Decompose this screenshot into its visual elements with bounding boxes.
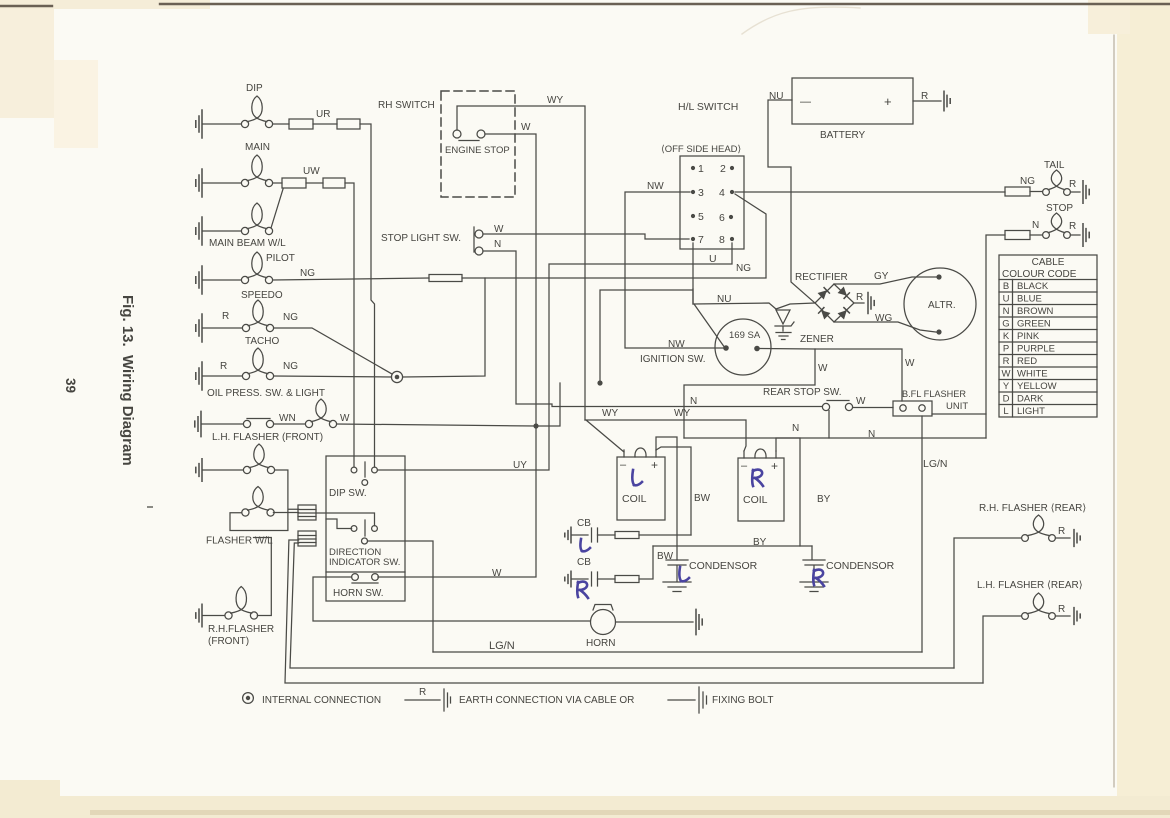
svg-text:–: – [620, 459, 627, 471]
lamp flasher W/L lower [242, 487, 274, 517]
svg-text:D: D [1003, 394, 1010, 405]
svg-text:PILOT: PILOT [266, 253, 295, 264]
svg-text:RED: RED [1017, 356, 1037, 367]
label OIL PRESS. SW. & LIGHT [207, 388, 325, 399]
svg-text:3: 3 [698, 187, 704, 199]
svg-text:GREEN: GREEN [1017, 319, 1051, 330]
svg-text:Y: Y [1003, 381, 1010, 392]
handwritten L condenser [679, 567, 689, 581]
svg-text:WY: WY [602, 408, 618, 419]
wire horn feed [313, 577, 590, 621]
svg-text:⟨OFF SIDE HEAD⟩: ⟨OFF SIDE HEAD⟩ [661, 144, 742, 155]
wire W horn switch feed [378, 426, 536, 579]
svg-text:PINK: PINK [1017, 331, 1040, 342]
fuse NG long [429, 275, 462, 282]
wire main beam to UW fuse [271, 189, 283, 228]
svg-text:WHITE: WHITE [1017, 369, 1048, 380]
svg-text:L.H. FLASHER (FRONT): L.H. FLASHER (FRONT) [212, 432, 323, 443]
condenser R [800, 546, 895, 592]
wire R.H. rear feed [954, 538, 1021, 668]
svg-text:TAIL: TAIL [1044, 160, 1065, 171]
coil R [738, 449, 784, 521]
battery [792, 78, 913, 141]
svg-text:39: 39 [63, 378, 78, 393]
lamp STOP [1005, 203, 1089, 246]
svg-text:4: 4 [719, 187, 725, 199]
junction W dot [533, 423, 538, 428]
pin 3 [691, 187, 704, 199]
svg-text:GY: GY [874, 271, 889, 282]
label BFL FLASHER UNIT [902, 389, 968, 412]
wire W to flasher lamp [337, 383, 560, 426]
legend earth via cable [405, 687, 634, 711]
svg-text:WG: WG [875, 313, 892, 324]
svg-text:169 SA: 169 SA [729, 330, 761, 341]
wire pin4 NG branch [735, 194, 766, 277]
svg-text:N: N [690, 396, 697, 407]
wire WY to coils [585, 408, 746, 452]
wire LG/N from dir sw [368, 541, 434, 652]
wire WY from engine stop [457, 95, 585, 420]
svg-text:(FRONT): (FRONT) [208, 636, 249, 647]
svg-text:R: R [1003, 356, 1010, 367]
svg-text:NU: NU [769, 91, 783, 102]
lamp TAIL [1005, 160, 1089, 203]
svg-text:INTERNAL CONNECTION: INTERNAL CONNECTION [262, 695, 381, 706]
lamp R.H. flasher front [196, 587, 258, 627]
svg-text:U: U [709, 253, 717, 265]
svg-text:BY: BY [753, 537, 767, 548]
switch DIRECTION INDICATOR SW [351, 520, 377, 544]
wire bus LG/N [433, 640, 922, 652]
svg-text:NG: NG [283, 361, 298, 372]
svg-text:RECTIFIER: RECTIFIER [795, 272, 848, 283]
svg-text:G: G [1002, 319, 1009, 330]
svg-text:NG: NG [300, 268, 315, 279]
svg-text:BATTERY: BATTERY [820, 130, 866, 141]
contact breaker R [565, 546, 653, 587]
switch oil pressure contacts [195, 411, 274, 436]
wire W stoplight to pin7 [483, 234, 689, 239]
wire GY to alternator [834, 271, 936, 284]
rectifier bridge [795, 272, 854, 322]
svg-text:ENGINE STOP: ENGINE STOP [445, 145, 510, 156]
svg-text:IGNITION SW.: IGNITION SW. [640, 354, 706, 365]
pin 8 [719, 234, 734, 246]
svg-text:P: P [1003, 344, 1009, 355]
svg-text:R.H.FLASHER: R.H.FLASHER [208, 624, 274, 635]
box H/L switch (OFF SIDE HEAD) [661, 144, 744, 249]
svg-text:INDICATOR SW.: INDICATOR SW. [329, 557, 400, 568]
svg-text:UY: UY [513, 460, 527, 471]
svg-text:DARK: DARK [1017, 394, 1044, 405]
flasher unit BFL [893, 401, 932, 416]
svg-text:BY: BY [817, 494, 831, 505]
wire W from engine stop [485, 122, 536, 426]
svg-text:WY: WY [547, 95, 563, 106]
svg-text:R: R [419, 687, 426, 698]
connector A [298, 505, 316, 520]
svg-text:UNIT: UNIT [946, 401, 968, 412]
svg-text:BLACK: BLACK [1017, 281, 1049, 292]
svg-text:PURPLE: PURPLE [1017, 344, 1055, 355]
label FLASHER W/L [206, 536, 273, 547]
svg-text:COIL: COIL [743, 494, 768, 506]
lamp MAIN [196, 142, 273, 197]
svg-text:REAR STOP SW.: REAR STOP SW. [763, 387, 842, 398]
fuse UR 1 [289, 119, 313, 129]
svg-text:W: W [521, 122, 531, 133]
label H/L SWITCH [678, 101, 738, 113]
svg-text:+: + [884, 94, 892, 109]
lamp DIP [196, 83, 273, 138]
svg-text:RH SWITCH: RH SWITCH [378, 100, 435, 111]
pin 6 [719, 212, 733, 224]
label UR [316, 109, 330, 120]
wire NU battery [768, 91, 815, 303]
pin 5 [691, 211, 704, 223]
connector B [298, 531, 316, 546]
svg-text:R: R [222, 311, 229, 322]
pin 1 [691, 163, 704, 175]
label R.H.FLASHER (FRONT) [208, 624, 274, 647]
svg-text:NU: NU [717, 294, 731, 305]
svg-text:—: — [800, 96, 811, 108]
lamp SPEEDO [196, 300, 298, 342]
wire W rear stop branch [684, 349, 828, 438]
svg-text:COLOUR CODE: COLOUR CODE [1002, 269, 1077, 280]
svg-text:CB: CB [577, 518, 591, 529]
handwritten R condenser [813, 570, 824, 586]
wire LG/N drop [922, 416, 948, 652]
handwritten L coil [632, 470, 642, 485]
svg-text:COIL: COIL [622, 493, 647, 505]
pin 4 [719, 187, 734, 199]
pin 7 [691, 234, 704, 246]
svg-text:FIXING BOLT: FIXING BOLT [712, 695, 774, 706]
switch HORN SW [333, 574, 384, 599]
svg-text:W: W [818, 363, 828, 374]
switch DIP SW [329, 462, 377, 499]
svg-text:2: 2 [720, 163, 726, 175]
svg-text:NG: NG [736, 263, 751, 274]
svg-text:Fig. 13. Wiring Diagram: Fig. 13. Wiring Diagram [119, 295, 136, 466]
svg-text:N: N [1032, 220, 1039, 231]
wire pin7 W riser [600, 243, 693, 383]
handwritten R cb [577, 582, 588, 598]
label UW [303, 166, 320, 177]
svg-text:5: 5 [698, 211, 704, 223]
svg-text:–: – [741, 460, 748, 472]
svg-text:NW: NW [668, 339, 685, 350]
wire NW pin3 [625, 181, 723, 350]
svg-text:NG: NG [1020, 176, 1035, 187]
handwritten R coil [752, 470, 763, 486]
fuse UR 2 [337, 119, 360, 129]
wire dir sw to connector A [316, 513, 375, 529]
svg-text:CABLE: CABLE [1032, 257, 1065, 268]
svg-text:W: W [856, 396, 866, 407]
label WN [279, 413, 296, 424]
coil L [617, 448, 665, 520]
wire flasher W/L to R.H. flasher [254, 538, 272, 616]
svg-text:N: N [792, 423, 799, 434]
wire pin8 U [378, 243, 733, 471]
label RH SWITCH [378, 100, 435, 111]
wire battery earth R [913, 91, 950, 111]
alternator ALTR [904, 268, 976, 340]
svg-text:ALTR.: ALTR. [928, 300, 956, 311]
wire ignition W to flasher unit [760, 349, 915, 402]
lamp MAIN BEAM W/L [196, 203, 286, 249]
lamp PILOT [196, 252, 295, 294]
svg-text:YELLOW: YELLOW [1017, 381, 1057, 392]
svg-text:DIP: DIP [246, 83, 263, 94]
svg-text:R: R [220, 361, 227, 372]
svg-text:SPEEDO: SPEEDO [241, 290, 283, 301]
wire stop lamp N riser [986, 235, 1005, 438]
wire N flasher unit [684, 414, 986, 440]
wire NG pilot [273, 268, 766, 280]
svg-text:R: R [1069, 179, 1076, 190]
svg-text:HORN SW.: HORN SW. [333, 588, 384, 599]
switch REAR STOP SW [763, 387, 853, 411]
switch ENGINE STOP [445, 130, 510, 156]
svg-text:BW: BW [694, 493, 711, 504]
lamp flasher W/L upper [196, 444, 275, 481]
lamp R.H. flasher rear [979, 503, 1086, 546]
pin 2 [720, 163, 734, 175]
svg-text:N: N [494, 239, 501, 250]
svg-text:N: N [1003, 306, 1010, 317]
svg-text:ZENER: ZENER [800, 334, 834, 345]
wire UW feed [273, 183, 354, 467]
svg-text:NW: NW [647, 181, 664, 192]
svg-text:W: W [494, 224, 504, 235]
wire rear stop N drop [828, 411, 830, 439]
box handlebar switch cluster [326, 456, 405, 601]
svg-text:6: 6 [719, 212, 725, 224]
svg-text:STOP: STOP [1046, 203, 1073, 214]
svg-text:BROWN: BROWN [1017, 306, 1054, 317]
handwritten L cb [580, 539, 590, 551]
wire bus earth 1 [290, 543, 954, 668]
wire UR feed [273, 124, 375, 467]
svg-text:CB: CB [577, 557, 591, 568]
table cable colour code [999, 255, 1097, 417]
svg-text:1: 1 [698, 163, 704, 175]
label SPEEDO [241, 290, 283, 301]
svg-text:L: L [1003, 406, 1008, 417]
svg-text:W: W [340, 413, 350, 424]
svg-text:DIP SW.: DIP SW. [329, 488, 367, 499]
condenser L [657, 551, 758, 592]
svg-text:B: B [1003, 281, 1009, 292]
wire WG to alternator [834, 313, 936, 332]
svg-text:MAIN BEAM W/L: MAIN BEAM W/L [209, 238, 286, 249]
lamp L.H. flasher front [274, 399, 350, 428]
svg-text:NG: NG [283, 312, 298, 323]
svg-text:K: K [1003, 331, 1010, 342]
svg-text:WY: WY [674, 408, 690, 419]
wire NU zener [693, 289, 815, 348]
horn [586, 605, 616, 650]
svg-text:+: + [651, 458, 658, 472]
wire N stoplight riser [483, 251, 822, 407]
box RH switch (dashed) [441, 91, 515, 197]
wire L.H. rear feed [983, 616, 1021, 683]
svg-text:OIL PRESS. SW. & LIGHT: OIL PRESS. SW. & LIGHT [207, 388, 325, 399]
svg-text:HORN: HORN [586, 638, 615, 649]
switch STOP LIGHT SW [381, 224, 504, 255]
svg-text:W: W [905, 358, 915, 369]
contact breaker L [565, 518, 691, 543]
junction dot W [597, 380, 602, 385]
svg-text:WN: WN [279, 413, 296, 424]
wire node to NG riser [403, 278, 485, 377]
svg-text:R: R [1058, 526, 1065, 537]
node internal connection [391, 371, 402, 382]
svg-text:B.FL FLASHER: B.FL FLASHER [902, 389, 966, 399]
legend internal connection [243, 693, 381, 706]
svg-text:R: R [921, 91, 928, 102]
label DIRECTION INDICATOR SW. [329, 547, 400, 568]
svg-text:R.H. FLASHER ⟨REAR⟩: R.H. FLASHER ⟨REAR⟩ [979, 503, 1086, 514]
wire rear stop to flasher unit [853, 396, 893, 408]
wire BY link [653, 537, 812, 548]
svg-text:+: + [771, 459, 778, 473]
svg-text:CONDENSOR: CONDENSOR [689, 560, 758, 572]
label IGNITION SW. [640, 354, 706, 365]
svg-text:LIGHT: LIGHT [1017, 406, 1045, 417]
svg-text:UR: UR [316, 109, 330, 120]
svg-text:W: W [1002, 369, 1011, 380]
svg-text:MAIN: MAIN [245, 142, 270, 153]
wire rectifier earth R [854, 292, 874, 314]
lamp L.H. flasher rear [977, 580, 1083, 624]
ignition switch 169SA [715, 319, 771, 375]
wire tacho to node [274, 376, 392, 377]
legend fixing bolt [668, 687, 774, 713]
lamp TACHO [196, 348, 298, 390]
svg-text:L.H. FLASHER ⟨REAR⟩: L.H. FLASHER ⟨REAR⟩ [977, 580, 1083, 591]
svg-text:UW: UW [303, 166, 320, 177]
wire BY R coil [776, 438, 831, 546]
svg-text:TACHO: TACHO [245, 336, 279, 347]
svg-text:U: U [1003, 294, 1010, 305]
svg-text:W: W [492, 568, 502, 579]
svg-text:LG/N: LG/N [489, 640, 515, 652]
svg-text:CONDENSOR: CONDENSOR [826, 560, 895, 572]
label L.H. FLASHER (FRONT) [212, 432, 323, 443]
svg-text:LG/N: LG/N [923, 458, 948, 470]
svg-text:BLUE: BLUE [1017, 294, 1042, 305]
wire speedo diagonal to node [274, 328, 392, 374]
svg-text:7: 7 [698, 234, 704, 246]
wire bus earth 2 [285, 540, 983, 683]
label TACHO [245, 336, 279, 347]
svg-text:H/L SWITCH: H/L SWITCH [678, 101, 738, 113]
wire lower W/L to connector A [273, 512, 298, 514]
svg-text:R: R [856, 292, 863, 303]
wire horn earth [616, 609, 703, 634]
fuse UW 2 [323, 178, 345, 188]
wire pin4 tail feed [735, 191, 1005, 193]
svg-text:R: R [1069, 221, 1076, 232]
wire BW L coil [656, 437, 711, 560]
svg-text:8: 8 [719, 234, 725, 246]
svg-text:STOP LIGHT SW.: STOP LIGHT SW. [381, 233, 461, 244]
zener diode [775, 310, 834, 345]
svg-text:EARTH CONNECTION VIA CABLE OR: EARTH CONNECTION VIA CABLE OR [459, 695, 634, 706]
svg-text:N: N [868, 429, 875, 440]
fuse UW 1 [282, 178, 306, 188]
wire upper W/L series loop [230, 470, 299, 531]
svg-text:R: R [1058, 604, 1065, 615]
